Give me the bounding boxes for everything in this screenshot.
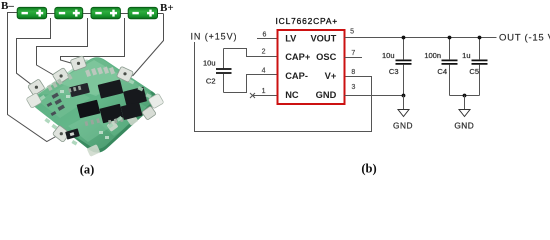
- capacitor C2: [216, 49, 232, 93]
- wire bat2-bat3 junction drop: [37, 18, 88, 79]
- pad P6 right edge: [142, 106, 157, 121]
- svg-text:LV: LV: [285, 33, 297, 43]
- darker lower rim: [62, 91, 157, 152]
- pin 5 wire VOUT to OUT: [345, 37, 497, 39]
- svg-text:10u: 10u: [203, 58, 216, 67]
- pin 6 stub: [257, 38, 278, 40]
- MOSFET group: [68, 78, 147, 133]
- svg-text:3: 3: [351, 84, 355, 91]
- capacitor C4: [442, 38, 458, 96]
- wire battery interconnects: [47, 13, 164, 15]
- battery B3: [91, 7, 120, 18]
- MOSFET Q1: [98, 79, 124, 98]
- junction dot VOUT/C4: [448, 36, 452, 40]
- junction dot pin3/C3: [402, 94, 406, 98]
- pad P2 top-left edge (B2): [52, 67, 70, 84]
- PCB board body: [32, 57, 157, 152]
- svg-text:(b): (b): [361, 162, 376, 176]
- svg-text:B–: B–: [1, 0, 14, 12]
- MOSFET legs row: [68, 78, 123, 133]
- svg-text:V+: V+: [325, 71, 337, 81]
- SMD row top: [85, 66, 115, 76]
- pad bottom vertex: [87, 144, 101, 157]
- svg-text:4: 4: [262, 67, 266, 74]
- wire bat3-bat4 junction drop: [61, 18, 125, 65]
- MOSFET Q3: [77, 100, 101, 119]
- wire bat1-bat2 junction drop: [17, 18, 51, 87]
- battery B2: [55, 7, 83, 18]
- wire B+ drop: [133, 14, 164, 76]
- junction dot VOUT/C5: [478, 36, 482, 40]
- svg-text:C5: C5: [469, 67, 479, 76]
- pin 2 stub: [224, 49, 278, 58]
- svg-text:GND: GND: [316, 90, 337, 100]
- ground GND1: [393, 96, 413, 131]
- battery B1: [17, 7, 46, 18]
- svg-text:100n: 100n: [424, 51, 441, 60]
- junction dot C4C5 gnd: [463, 94, 467, 98]
- svg-text:C2: C2: [206, 77, 216, 86]
- SMD row upper-left edge: [47, 73, 73, 91]
- pad right vertex: [148, 93, 164, 109]
- svg-text:VOUT: VOUT: [310, 33, 336, 43]
- pad P3 top edge (B3): [70, 56, 87, 71]
- svg-text:7: 7: [351, 50, 355, 57]
- lighter top-left sheen: [36, 58, 150, 94]
- svg-text:CAP+: CAP+: [285, 52, 311, 62]
- silkscreen speckles: [39, 79, 151, 145]
- svg-text:1: 1: [262, 88, 266, 95]
- wire IN down-bottom-up to V+: [195, 42, 372, 132]
- svg-text:2: 2: [262, 49, 266, 56]
- light trace patches: [56, 60, 126, 96]
- svg-text:8: 8: [351, 69, 355, 76]
- svg-text:6: 6: [263, 32, 267, 39]
- ground GND2: [454, 96, 474, 131]
- svg-text:C3: C3: [389, 67, 399, 76]
- svg-text:GND: GND: [393, 121, 413, 131]
- svg-text:OUT (-15 V): OUT (-15 V): [499, 33, 550, 44]
- op-amp style chip box U2 ICL7662CPA+: [276, 16, 345, 104]
- wire B- drop: [8, 13, 59, 142]
- pin 1 stub with NC cross: [250, 93, 278, 98]
- svg-text:(a): (a): [80, 163, 95, 177]
- svg-text:IN (+15V): IN (+15V): [191, 32, 238, 42]
- battery B4: [128, 7, 157, 18]
- pads bottom-right edge: [107, 114, 139, 132]
- MOSFET Q2: [123, 87, 147, 107]
- svg-text:B+: B+: [160, 2, 174, 14]
- capacitor C5: [472, 38, 488, 96]
- svg-text:10u: 10u: [382, 51, 395, 60]
- MOSFET Q4: [99, 104, 123, 124]
- svg-text:1u: 1u: [462, 51, 470, 60]
- pad left vertex: [26, 93, 42, 109]
- IC U2 small top-left: [69, 83, 90, 97]
- pad P1 top-left edge (B1): [28, 79, 46, 96]
- svg-text:OSC: OSC: [316, 52, 336, 62]
- svg-text:CAP-: CAP-: [285, 71, 308, 81]
- wire C4-C5 gnd bus: [450, 95, 480, 97]
- pin 3 stub GND net: [345, 95, 404, 97]
- SMD components cluster left: [47, 92, 65, 116]
- MOSFET Q5: [121, 102, 143, 120]
- pad P4 top-right edge (B+): [116, 66, 133, 82]
- pad P5 bottom-left edge (B-): [52, 125, 70, 142]
- svg-text:NC: NC: [285, 90, 299, 100]
- pin 7 stub OSC: [345, 57, 363, 59]
- capacitor C3: [396, 38, 412, 96]
- IC U1 bottom-left: [65, 128, 80, 139]
- svg-text:5: 5: [350, 29, 354, 36]
- junction dot VOUT/C3: [402, 36, 406, 40]
- pin 4 stub: [224, 74, 278, 93]
- svg-text:GND: GND: [454, 121, 474, 131]
- svg-text:ICL7662CPA+: ICL7662CPA+: [276, 16, 339, 26]
- svg-text:C4: C4: [437, 67, 447, 76]
